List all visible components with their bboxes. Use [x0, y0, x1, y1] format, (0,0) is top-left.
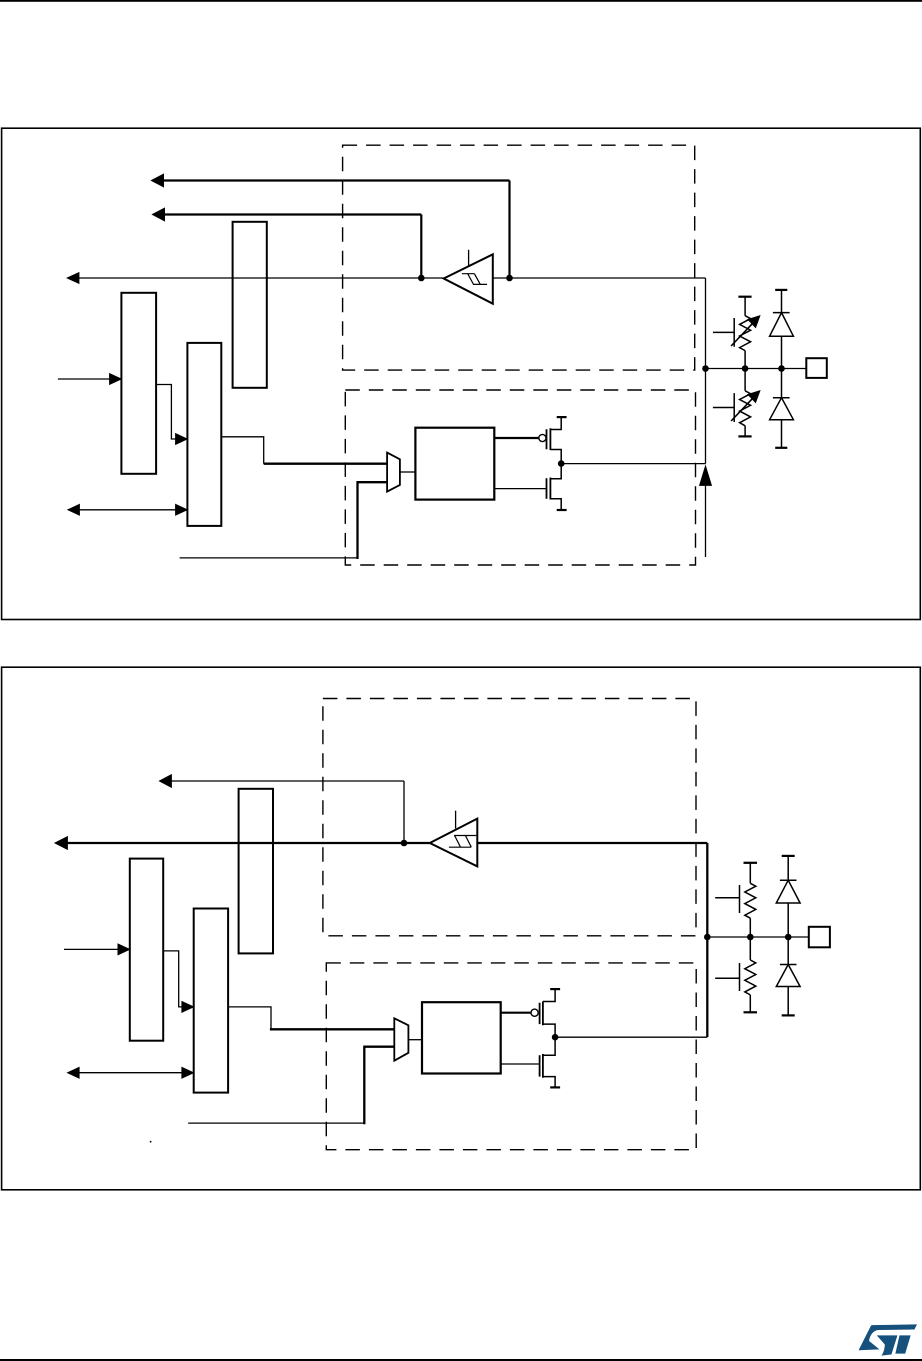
diode D2: protection to VSS (fig1) [770, 372, 794, 448]
VSS tick N-MOS (fig1) [557, 509, 567, 511]
op-amp U1: TTL Schmitt trigger (fig1) [444, 254, 493, 303]
wire: alternate function output to mux lower input (fig2) [188, 1122, 364, 1124]
output driver dashed box (fig2) [326, 963, 696, 1150]
hysteresis glyph (fig2) [449, 836, 476, 848]
wire: N-MOS gate (fig1) [494, 488, 546, 490]
node: pin junction dot (fig2) [704, 934, 711, 941]
variable arrow pull-down (fig1) [731, 397, 753, 421]
transistor Q2: N-MOS (fig1) [550, 464, 561, 510]
VDD tick pull-up (fig1) [738, 296, 751, 298]
mux (fig2) [394, 1018, 408, 1060]
VDD tick P-MOS (fig1) [557, 416, 567, 418]
node: diode column dot (fig1) [778, 365, 785, 372]
output control block (fig1) [415, 428, 494, 500]
wire: output data register to read/write (fig2) [163, 951, 188, 1007]
VSS tick pull-down (fig1) [738, 435, 751, 437]
stray period [150, 1141, 152, 1143]
op-amp U2: TTL Schmitt trigger (fig2) [430, 819, 478, 867]
resistor R2: switchable pull-down (fig1) [713, 372, 751, 437]
register block: output data register (fig1) [121, 293, 156, 474]
register block: input data register (fig2) [239, 789, 273, 954]
figure 2 frame [2, 667, 921, 1190]
wire: read/write to mux upper input (fig1) [221, 437, 263, 464]
VSS tick N-MOS (fig2) [550, 1086, 560, 1088]
node: arrow junction dot (fig2) [401, 840, 408, 847]
diode D3: protection to VDD_FT (fig2) [776, 856, 800, 934]
arrowhead arrow1 [152, 174, 164, 187]
wire: alternate function output to mux lower input (fig1) [180, 557, 358, 559]
node: pull-up column dot (fig1) [742, 365, 749, 372]
wire: mux output (fig2) [408, 1039, 422, 1041]
I/O pin pad (fig2) [809, 927, 830, 948]
resistor R4: pull-down (fig2) [715, 940, 756, 1012]
wire: pin line (fig2) [707, 936, 809, 938]
node: arrow2 junction dot [418, 275, 425, 282]
diode D1: protection to VDD_FT (fig1) [770, 290, 794, 366]
arrowhead schmitt output left [67, 273, 79, 284]
wire: read/write bidirectional arrow (fig2) [75, 1072, 187, 1074]
ST logo [859, 1324, 917, 1355]
node: MOS output dot (fig2) [552, 1034, 559, 1041]
transistor Q3: P-MOS (fig2) [531, 1009, 538, 1016]
arrowhead arrow2 [153, 208, 165, 221]
transistor Q1: P-MOS (fig1) [539, 434, 546, 441]
register block: read/write (fig1) [187, 343, 221, 526]
VDD tick pull-up (fig2) [744, 862, 758, 864]
VSS tick diode (fig2) [782, 1014, 795, 1016]
variable arrow pull-up (fig1) [731, 322, 753, 346]
VSS tick pull-down (fig2) [744, 1011, 758, 1013]
wire: output data register to read/write (fig1) [156, 385, 182, 440]
wire: write arrow into output data register (fig2) [64, 948, 125, 950]
hysteresis glyph (fig1) [462, 274, 487, 285]
VDD_FT tick diode (fig1) [775, 289, 787, 291]
figure 1 frame [2, 128, 921, 619]
wire: write arrow into output data register (fig1) [58, 378, 117, 380]
wire: input data arrow (fig1 arrow 2) [163, 215, 421, 277]
wire: N-MOS gate (fig2) [501, 1063, 540, 1065]
node: arrow1 junction dot [506, 275, 513, 282]
output control block (fig2) [422, 1002, 501, 1073]
wire: P-MOS gate (fig1) [494, 437, 538, 439]
diode D4: protection to VSS (fig2) [776, 940, 800, 1015]
register block: read/write (fig2) [194, 909, 228, 1093]
register block: output data register (fig2) [130, 859, 163, 1041]
wire: schmitt output to left (fig2 thick arrow) [66, 842, 430, 844]
schmitt enable tick (fig2) [455, 811, 457, 829]
resistor R1: switchable pull-up (fig1) [713, 297, 751, 366]
wire: analog input arrow (fig1) [705, 484, 707, 557]
I/O pin pad (fig1) [806, 358, 827, 378]
VDD tick P-MOS (fig2) [550, 988, 560, 990]
register block: input data register (fig1) [233, 222, 267, 388]
transistor Q4: N-MOS (fig2) [543, 1037, 555, 1087]
node: pin junction dot (fig1) [702, 365, 709, 372]
header rule [0, 0, 922, 2]
node: MOS output dot (fig1) [558, 460, 565, 467]
VDD_FT tick diode (fig2) [782, 855, 795, 857]
wire: pin to schmitt input (fig1) [493, 278, 706, 464]
wire: MOS output to pin column (fig1) [561, 463, 705, 465]
wire: schmitt input from pin (fig2) [477, 843, 707, 1037]
wire: P-MOS gate (fig2) [501, 1012, 531, 1014]
wire: read-data bus arrow (fig1 arrow 1) [162, 181, 510, 277]
wire: input data arrow (fig2) [168, 781, 404, 841]
resistor R3: pull-up (fig2) [715, 863, 756, 934]
VSS tick diode (fig1) [775, 447, 787, 449]
wire: read/write to mux upper input (fig2) [228, 1007, 271, 1029]
wire: schmitt output line to left (fig1) [76, 277, 444, 279]
wire: mux output (fig1) [400, 471, 416, 473]
schmitt enable tick (fig1) [468, 250, 470, 266]
footer rule [0, 1359, 922, 1361]
wire: MOS output to pin column (fig2) [555, 1036, 707, 1038]
mux (fig1) [387, 453, 400, 492]
input driver dashed box (fig2) [323, 699, 696, 936]
output driver dashed box (fig1) [345, 390, 695, 565]
input driver dashed box (fig1) [343, 145, 695, 370]
wire: read/write bidirectional arrow (fig1) [75, 509, 180, 511]
node: pull-up column dot (fig2) [747, 934, 754, 941]
node: diode column dot (fig2) [785, 934, 792, 941]
wire: pin line (fig1) [706, 368, 807, 370]
